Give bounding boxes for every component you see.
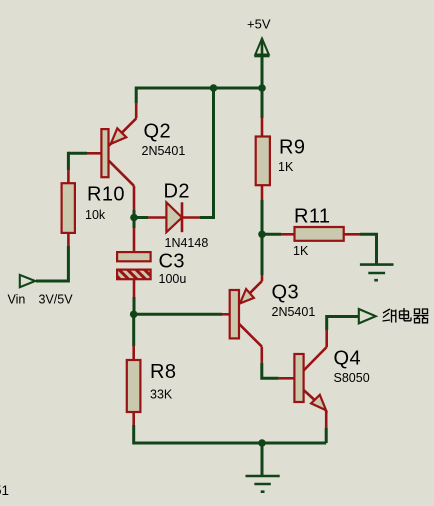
wire node down to R8: [132, 314, 135, 346]
resistor R9: [256, 118, 270, 200]
svg-text:Vin: Vin: [8, 293, 26, 307]
svg-text:R10: R10: [87, 183, 125, 205]
node bottom rail / ground: [258, 439, 266, 447]
wire Q2 emitter to top rail: [135, 87, 138, 104]
transistor Q2 2N5401: [87, 104, 136, 210]
svg-text:S8050: S8050: [334, 371, 370, 385]
wire ground stem: [261, 443, 264, 476]
node C3/R8/Q3 base: [130, 311, 138, 319]
node top rail / +5V: [258, 84, 266, 92]
input terminal Vin: [20, 275, 35, 287]
wire node to C3: [133, 218, 136, 229]
wire bottom rail: [134, 442, 327, 445]
svg-text:Q2: Q2: [144, 120, 171, 142]
svg-text:2N5401: 2N5401: [142, 144, 186, 158]
svg-text:Q4: Q4: [334, 347, 361, 369]
svg-text:10k: 10k: [85, 208, 106, 222]
wire R11 to ground: [360, 234, 377, 264]
svg-text:D2: D2: [164, 180, 190, 202]
power +5V symbol: [254, 39, 269, 61]
wire Q2 collector to node: [133, 210, 136, 218]
capacitor C3 100u: [117, 228, 151, 297]
ground (bottom): [246, 476, 280, 492]
wire Q3 emitter up to node: [261, 234, 264, 275]
wire D2 cathode to top rail: [200, 88, 214, 218]
node Q2 collector / D2 / C3: [130, 214, 138, 222]
svg-text:R8: R8: [150, 361, 176, 383]
svg-text:3V/5V: 3V/5V: [39, 293, 74, 307]
resistor R10: [62, 170, 75, 246]
transistor Q3 2N5401: [222, 275, 262, 363]
svg-text:2N5401: 2N5401: [272, 305, 316, 319]
wire R10 to input terminal: [36, 246, 68, 281]
svg-text:33K: 33K: [150, 388, 173, 402]
resistor R11: [262, 227, 360, 241]
wire R9 to node: [261, 200, 264, 234]
wire Q4 emitter to bottom rail: [325, 428, 328, 443]
transistor Q4 S8050: [279, 330, 327, 428]
wire base corner down to R10: [67, 152, 70, 170]
wire +5V vertical: [261, 56, 264, 118]
svg-text:+5V: +5V: [247, 17, 271, 32]
wire R8 to bottom rail: [132, 425, 135, 445]
svg-text:1K: 1K: [278, 160, 294, 174]
svg-text:51: 51: [0, 483, 9, 498]
node top rail / D2 cathode branch: [210, 84, 218, 92]
wire node to D2 anode: [134, 216, 148, 219]
wire node to Q3 base: [134, 313, 222, 316]
svg-text:1N4148: 1N4148: [165, 236, 209, 250]
ground (right of R11): [360, 265, 394, 281]
svg-text:100u: 100u: [159, 272, 187, 286]
svg-text:1K: 1K: [293, 244, 309, 258]
wire Q3 collector to Q4 base: [262, 363, 279, 379]
wire Q2 base: [68, 152, 87, 155]
node R9/R11/Q3: [258, 231, 266, 239]
wire top rail: [136, 87, 262, 90]
svg-text:C3: C3: [159, 250, 185, 272]
diode D2 1N4148: [148, 202, 200, 232]
wire Q4 collector to relay terminal: [327, 317, 359, 331]
resistor R8: [127, 346, 141, 425]
wire C3 to lower node: [133, 297, 136, 314]
svg-text:R11: R11: [294, 205, 330, 227]
relay label 继电器 (drawn strokes): [383, 308, 429, 323]
svg-text:Q3: Q3: [272, 281, 299, 303]
svg-text:R9: R9: [279, 136, 305, 158]
output terminal relay: [359, 309, 376, 323]
